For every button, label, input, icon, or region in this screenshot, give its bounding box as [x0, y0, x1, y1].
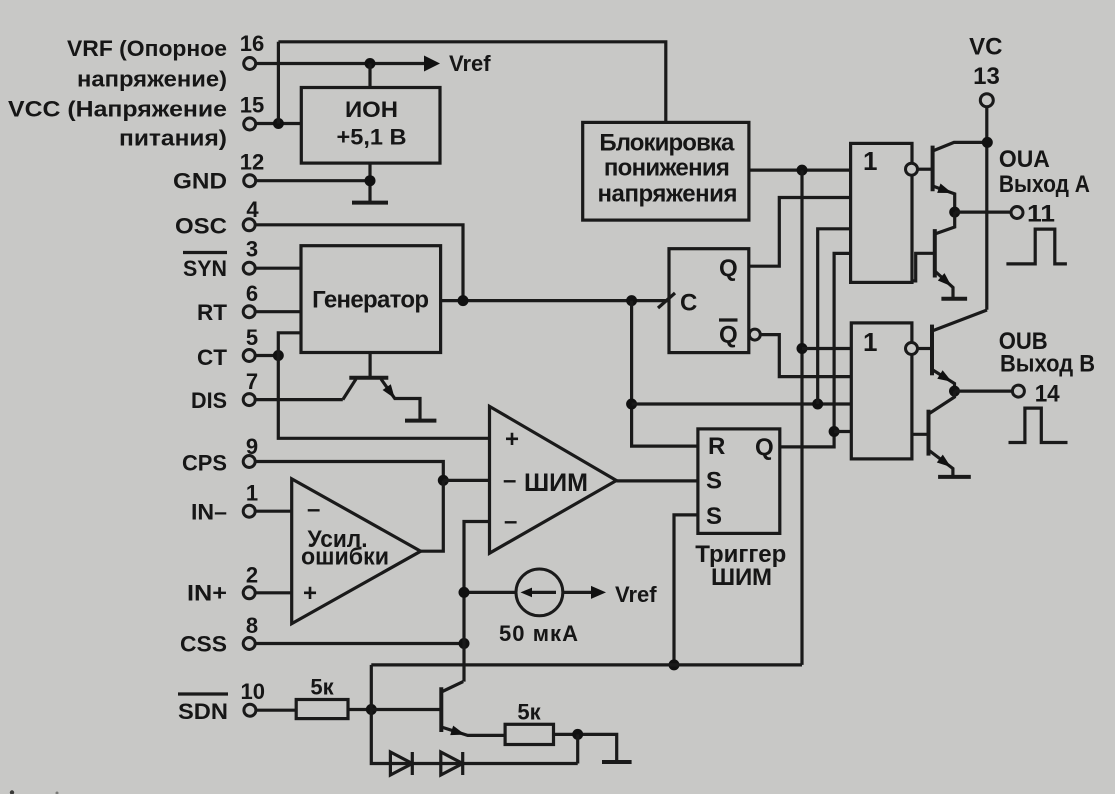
pin 3 SYN terminal [243, 262, 255, 274]
node VC collector junction [982, 137, 993, 148]
svg-text:1: 1 [246, 481, 258, 506]
node shutdown junction [366, 704, 377, 715]
svg-text:1: 1 [863, 146, 877, 176]
node FF clock junction [626, 295, 637, 306]
wire UVLO output to gate A [749, 169, 851, 172]
pin 16 VRF terminal [244, 58, 256, 70]
pulse waveform A [1006, 229, 1067, 264]
svg-text:R: R [708, 433, 725, 460]
svg-text:Генератор: Генератор [312, 287, 429, 314]
ground symbol under QA2 [941, 297, 967, 301]
svg-text:VCC (Напряжение: VCC (Напряжение [8, 97, 227, 122]
pulse waveform B [1009, 408, 1068, 442]
svg-text:9: 9 [246, 434, 258, 459]
node CSS junction [459, 638, 470, 649]
svg-text:+5,1 В: +5,1 В [337, 125, 407, 150]
svg-text:OSC: OSC [175, 214, 227, 239]
node GND junction [365, 175, 376, 186]
pin 4 OSC terminal [243, 219, 255, 231]
wire trigger S2 input [674, 515, 698, 665]
diode D1 [390, 752, 412, 775]
wire UVLO bus down to shutdown line [800, 170, 803, 665]
node UVLO to gate B junction [797, 343, 808, 354]
wire ION bottom to GND node [368, 163, 371, 202]
svg-text:SDN: SDN [178, 699, 228, 724]
pin 10 SDN terminal [244, 704, 256, 716]
svg-text:6: 6 [246, 281, 258, 306]
svg-text:VC: VC [969, 34, 1002, 61]
svg-text:ШИМ: ШИМ [524, 469, 588, 497]
wire IN- to error amp [255, 510, 292, 513]
wire diode chain riser [576, 734, 579, 763]
svg-text:CSS: CSS [180, 632, 227, 657]
svg-text:14: 14 [1035, 381, 1061, 408]
wire SYN to generator [255, 267, 301, 270]
wire node to Q3 base [371, 708, 441, 711]
svg-text:DIS: DIS [191, 388, 227, 413]
wire OSC to oscillator output line [255, 225, 463, 301]
svg-text:SYN: SYN [183, 256, 227, 281]
svg-text:Q: Q [719, 322, 738, 349]
bubble gate A output [906, 163, 918, 175]
wire CT to generator [255, 354, 278, 357]
svg-text:питания): питания) [119, 126, 227, 151]
bubble gate B output [906, 343, 918, 355]
pin 6 RT terminal [243, 306, 255, 318]
resistor R1 5k [296, 700, 348, 719]
svg-text:–: – [504, 508, 517, 535]
transistor QA2 lower NPN [933, 229, 937, 277]
wire trigger Q to gate B input [834, 430, 851, 433]
svg-text:Выход В: Выход В [1000, 351, 1095, 378]
node S2 shutdown junction [669, 659, 680, 670]
bubble FF Q-bar output [749, 329, 760, 340]
gate U2 OR "1" channel A [851, 143, 912, 282]
pin 7 DIS terminal [243, 394, 255, 406]
pin 5 CT terminal [243, 350, 255, 362]
node output B junction [949, 386, 960, 397]
pin 9 CPS terminal [243, 456, 255, 468]
svg-text:50 мкА: 50 мкА [499, 621, 578, 646]
transistor Q3 shutdown NPN [439, 687, 443, 732]
ground symbol shutdown [602, 760, 632, 764]
transistor QA upper NPN [931, 146, 935, 192]
svg-text:Vref: Vref [615, 582, 657, 607]
node CT junction [273, 350, 284, 361]
wire pin15 to ION box [256, 122, 302, 125]
svg-text:GND: GND [173, 169, 227, 194]
transistor Q1 discharge [369, 353, 372, 377]
wire R2 to ground [554, 734, 617, 760]
resistor R2 5k [505, 724, 553, 744]
wire PWM second minus input [464, 522, 490, 682]
svg-text:+: + [303, 580, 317, 607]
svg-text:понижения: понижения [604, 155, 730, 182]
node UVLO junction [797, 165, 808, 176]
wire DIS to discharge transistor emitter [255, 398, 343, 401]
clock chevron on FF [658, 293, 675, 308]
wire gate B output to QB base [918, 347, 933, 350]
node junction VRF/ION [365, 58, 376, 69]
wire FF Q to gate A input [749, 198, 851, 267]
svg-text:16: 16 [240, 31, 264, 56]
svg-text:IN+: IN+ [187, 581, 227, 606]
svg-text:–: – [307, 496, 320, 523]
wire blanking line to gate B input [632, 402, 852, 405]
svg-text:–: – [503, 467, 516, 494]
svg-text:10: 10 [240, 679, 264, 704]
wire current source to Vref arrow [563, 591, 591, 594]
comparator PWM ШИМ [490, 406, 617, 553]
wire generator output line to flip-flop C [441, 299, 669, 302]
wire output A to pin 11 [955, 211, 1011, 214]
svg-text:3: 3 [246, 237, 258, 262]
diode D2 [441, 752, 463, 775]
wire pin12 to GND node [256, 179, 370, 182]
svg-text:4: 4 [246, 197, 259, 222]
wire VCC riser to top rail [277, 42, 280, 124]
svg-text:13: 13 [973, 63, 1000, 90]
ground symbol under QB2 [938, 475, 971, 479]
pin 12 GND terminal [244, 175, 256, 187]
wire RT to generator [255, 310, 301, 313]
wire VC supply rail [985, 107, 988, 310]
wire FF Q-bar to gate B input [760, 335, 851, 377]
wire CPS to PWM minus node [255, 462, 443, 481]
voltage reference U1 ION box [301, 88, 440, 164]
wire gate A to QA2 base [912, 253, 935, 281]
wire error amp output riser [421, 480, 444, 551]
wire CT down to PWM plus input [278, 356, 489, 439]
scan artifact bottom-left [10, 790, 14, 794]
svg-text:5: 5 [246, 325, 258, 350]
svg-text:CT: CT [197, 345, 228, 370]
wire pin16 to Vref arrow [256, 62, 425, 65]
oscillator block Генератор [301, 246, 441, 353]
node VCC junction [273, 118, 284, 129]
node diode return junction [572, 729, 583, 740]
ground symbol under discharge transistor [405, 419, 436, 423]
wire R1 to shutdown node [348, 708, 371, 711]
svg-text:8: 8 [246, 613, 258, 638]
pin 8 CSS terminal [243, 638, 255, 650]
pin 11 OUA terminal [1011, 207, 1023, 219]
current source I1 50uA [516, 569, 563, 616]
block UVLO Блокировка понижения напряжения [583, 122, 749, 220]
wire PWM output to trigger S [616, 479, 698, 482]
wire node up to shutdown line [370, 665, 373, 710]
node PWM minus junction [438, 475, 449, 486]
svg-text:напряжения: напряжения [598, 181, 738, 208]
wire IN+ to error amp [255, 591, 292, 594]
svg-text:Q: Q [719, 255, 738, 282]
svg-text:Q: Q [755, 434, 774, 461]
transistor QB2 lower NPN [927, 410, 931, 456]
node blanking to gate A riser [812, 399, 823, 410]
svg-text:ИОН: ИОН [345, 97, 398, 122]
svg-text:OUA: OUA [999, 146, 1050, 173]
node trigger Q junction [829, 426, 840, 437]
wire CT up into generator [278, 333, 301, 356]
svg-text:Блокировка: Блокировка [599, 130, 735, 157]
arrow Vref top [424, 56, 440, 72]
wire node to PWM minus input [443, 479, 489, 482]
wire UVLO to gate B input [802, 347, 851, 350]
node current source junction [459, 587, 470, 598]
pin 15 VCC terminal [244, 118, 256, 130]
svg-text:RT: RT [197, 300, 228, 325]
wire CSS to soft start node [255, 642, 464, 645]
svg-text:ШИМ: ШИМ [711, 564, 772, 591]
gate U3 OR "1" channel B [851, 323, 912, 459]
svg-text:VRF (Опорное: VRF (Опорное [67, 36, 227, 61]
ground symbol under ION [352, 201, 388, 205]
svg-text:S: S [706, 503, 722, 530]
trigger latch Триггер ШИМ [698, 429, 780, 534]
svg-text:+: + [505, 426, 519, 453]
svg-text:5к: 5к [517, 700, 541, 725]
svg-text:1: 1 [863, 327, 877, 357]
svg-text:Выход А: Выход А [999, 171, 1090, 198]
wire output B to pin 14 [955, 390, 1013, 393]
wire top rail to UVLO block [278, 42, 665, 123]
svg-text:11: 11 [1027, 201, 1055, 228]
wire shutdown line [371, 663, 802, 666]
pin 14 OUB terminal [1012, 385, 1024, 397]
svg-text:Vref: Vref [449, 51, 491, 76]
svg-text:5к: 5к [310, 675, 334, 700]
wire blanking riser to gate A input [818, 229, 851, 404]
wire gate B to QB2 base [912, 433, 929, 436]
svg-text:2: 2 [246, 563, 258, 588]
transistor QB upper NPN [930, 325, 934, 376]
svg-text:IN–: IN– [191, 500, 227, 525]
svg-text:ошибки: ошибки [301, 544, 389, 571]
pin 13 VC terminal [980, 94, 993, 107]
wire node down to diode chain [371, 710, 577, 764]
op-amp error amplifier Усил. ошибки [292, 479, 421, 624]
node blanking junction [626, 399, 637, 410]
svg-text:15: 15 [240, 93, 264, 118]
pin 1 IN- terminal [243, 505, 255, 517]
svg-text:12: 12 [240, 150, 264, 175]
wire node to ION box top [368, 64, 371, 88]
svg-text:напряжение): напряжение) [77, 67, 227, 92]
wire trigger Q output to gates [780, 253, 851, 447]
wire current source to soft-start node [464, 591, 516, 594]
svg-text:CPS: CPS [182, 451, 227, 476]
svg-text:7: 7 [246, 369, 258, 394]
wire SDN to resistor R1 [256, 709, 296, 712]
node OSC junction on output line [458, 295, 469, 306]
arrow Vref bottom [591, 586, 606, 599]
svg-text:S: S [706, 468, 722, 495]
pin 2 IN+ terminal [243, 587, 255, 599]
node output A junction [949, 207, 960, 218]
svg-text:C: C [680, 290, 697, 317]
wire gate A output to QA base [918, 168, 933, 171]
wire clock line down to trigger R [632, 301, 698, 447]
flip-flop toggle FF [669, 249, 749, 353]
